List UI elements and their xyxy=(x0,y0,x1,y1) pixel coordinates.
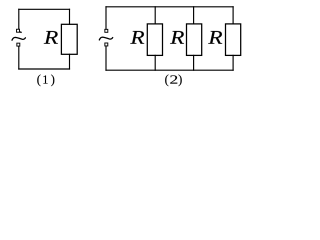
wire: circuit 1 right upper stub xyxy=(69,9,71,24)
resistor R box 1 (circuit 2) xyxy=(147,24,162,56)
resistor R box 3 (circuit 2) xyxy=(226,24,241,56)
label R3 (circuit 2) xyxy=(208,31,222,44)
wire: circuit 1 left upper segment xyxy=(18,9,20,29)
wire: circuit 2 stub below resistor 2 xyxy=(193,55,195,70)
label R (circuit 1) xyxy=(44,31,58,44)
wire: circuit 2 bottom xyxy=(106,69,233,71)
caption (1) close paren xyxy=(51,74,54,86)
source terminal square lower (circuit 2) xyxy=(105,43,108,46)
wire: circuit 1 bottom xyxy=(19,68,70,70)
wire: circuit 2 stub below resistor 3 (right side of loop) xyxy=(232,55,234,70)
resistor R box (circuit 1) xyxy=(61,24,77,54)
resistor R box 2 (circuit 2) xyxy=(187,24,202,56)
wire: circuit 2 stub above resistor 3 (right side of loop) xyxy=(232,7,234,24)
source terminal square lower (circuit 1) xyxy=(17,43,20,46)
AC source tilde (circuit 1) xyxy=(12,37,25,40)
wire: circuit 1 top xyxy=(19,8,70,10)
caption (2) close paren xyxy=(178,74,181,86)
wire: circuit 2 left upper segment xyxy=(105,7,107,29)
AC source tilde (circuit 2) xyxy=(99,37,112,40)
wire: circuit 2 stub below resistor 1 xyxy=(154,55,156,70)
wire: circuit 2 stub above resistor 2 xyxy=(193,7,195,24)
caption (1) open paren xyxy=(37,74,40,86)
label R1 (circuit 2) xyxy=(130,31,144,44)
source terminal square upper (circuit 2) xyxy=(105,29,108,32)
switch nub on upper terminal (circuit 1) xyxy=(20,31,21,33)
caption (2) digit 2 xyxy=(170,75,177,83)
caption (2) open paren xyxy=(165,74,168,86)
wire: circuit 2 left lower segment xyxy=(105,46,107,70)
wire: circuit 2 top xyxy=(106,6,233,8)
wire: circuit 1 right lower stub xyxy=(69,54,71,69)
wire: circuit 1 left lower segment xyxy=(18,46,20,69)
label R2 (circuit 2) xyxy=(170,31,184,44)
wire: circuit 2 stub above resistor 1 xyxy=(154,7,156,24)
source terminal square upper (circuit 1) xyxy=(17,29,20,32)
caption (1) digit 1 xyxy=(43,75,47,83)
